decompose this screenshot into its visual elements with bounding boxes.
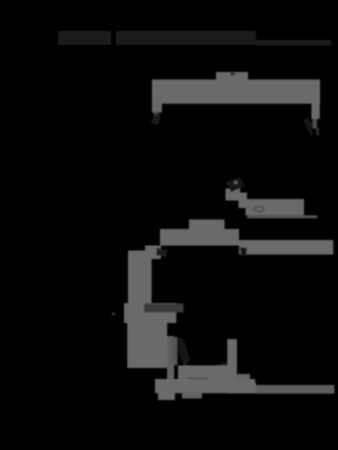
upper stroke: notch bump on top xyxy=(216,72,248,81)
corner join to baseline xyxy=(227,383,256,394)
faint arrow marks right of descender xyxy=(156,248,168,257)
staircase blob above label band xyxy=(226,189,241,201)
upper stroke: left end lobe xyxy=(152,103,162,113)
title text word 1 (illegible, very dark) xyxy=(58,31,111,45)
dark dots inside notch xyxy=(230,73,235,76)
tiny speck left of widened gray xyxy=(112,313,115,316)
second tail chunk xyxy=(182,393,202,399)
dark horizontal band xyxy=(144,304,184,313)
title text word 2 (illegible, very dark) xyxy=(116,31,256,45)
big block xyxy=(127,320,167,368)
bridge strip right of block xyxy=(167,336,174,380)
dark oval inside label band xyxy=(254,207,264,212)
faint marks above staircase xyxy=(226,177,245,192)
right-arm bottom widening xyxy=(237,374,250,385)
staircase step xyxy=(239,200,249,208)
small step left of label band xyxy=(240,193,247,201)
descender diagonal upper xyxy=(145,246,161,260)
arrowhead (faint dark) xyxy=(303,118,313,137)
label band (long horizontal blob) xyxy=(246,199,305,215)
bottom band xyxy=(155,379,255,393)
upper stroke: left mid-gray tail xyxy=(154,112,159,118)
arrow tip fade xyxy=(316,128,319,136)
thin lip under label band xyxy=(247,215,317,218)
lower stroke: bump on top xyxy=(189,220,225,230)
descender diagonal lower xyxy=(128,251,148,260)
u-right-arm xyxy=(227,339,237,382)
arrow shaft (right vertical) xyxy=(312,104,320,120)
title underline segment xyxy=(256,40,331,46)
tiny gray dot in faint marks xyxy=(234,181,238,184)
dark tick inside fill xyxy=(188,378,208,383)
lower stroke: band right part xyxy=(239,240,333,255)
arrow shaft fade xyxy=(313,119,318,129)
upper stroke: main horizontal band xyxy=(152,80,320,104)
u-left-arm dark curve xyxy=(178,337,190,366)
upper stroke: left faint tail xyxy=(151,114,161,125)
widened gray below column xyxy=(124,303,176,323)
tail bump below bottom band xyxy=(158,393,175,400)
long thin baseline to the right xyxy=(256,385,334,394)
gray fill under u bottom xyxy=(178,366,228,380)
u-bottom dark curve xyxy=(184,362,227,373)
u-left-arm gray strip xyxy=(172,337,178,365)
lower stroke: band left part xyxy=(160,229,239,246)
left column xyxy=(128,259,152,304)
faint marks under band step xyxy=(240,247,247,256)
